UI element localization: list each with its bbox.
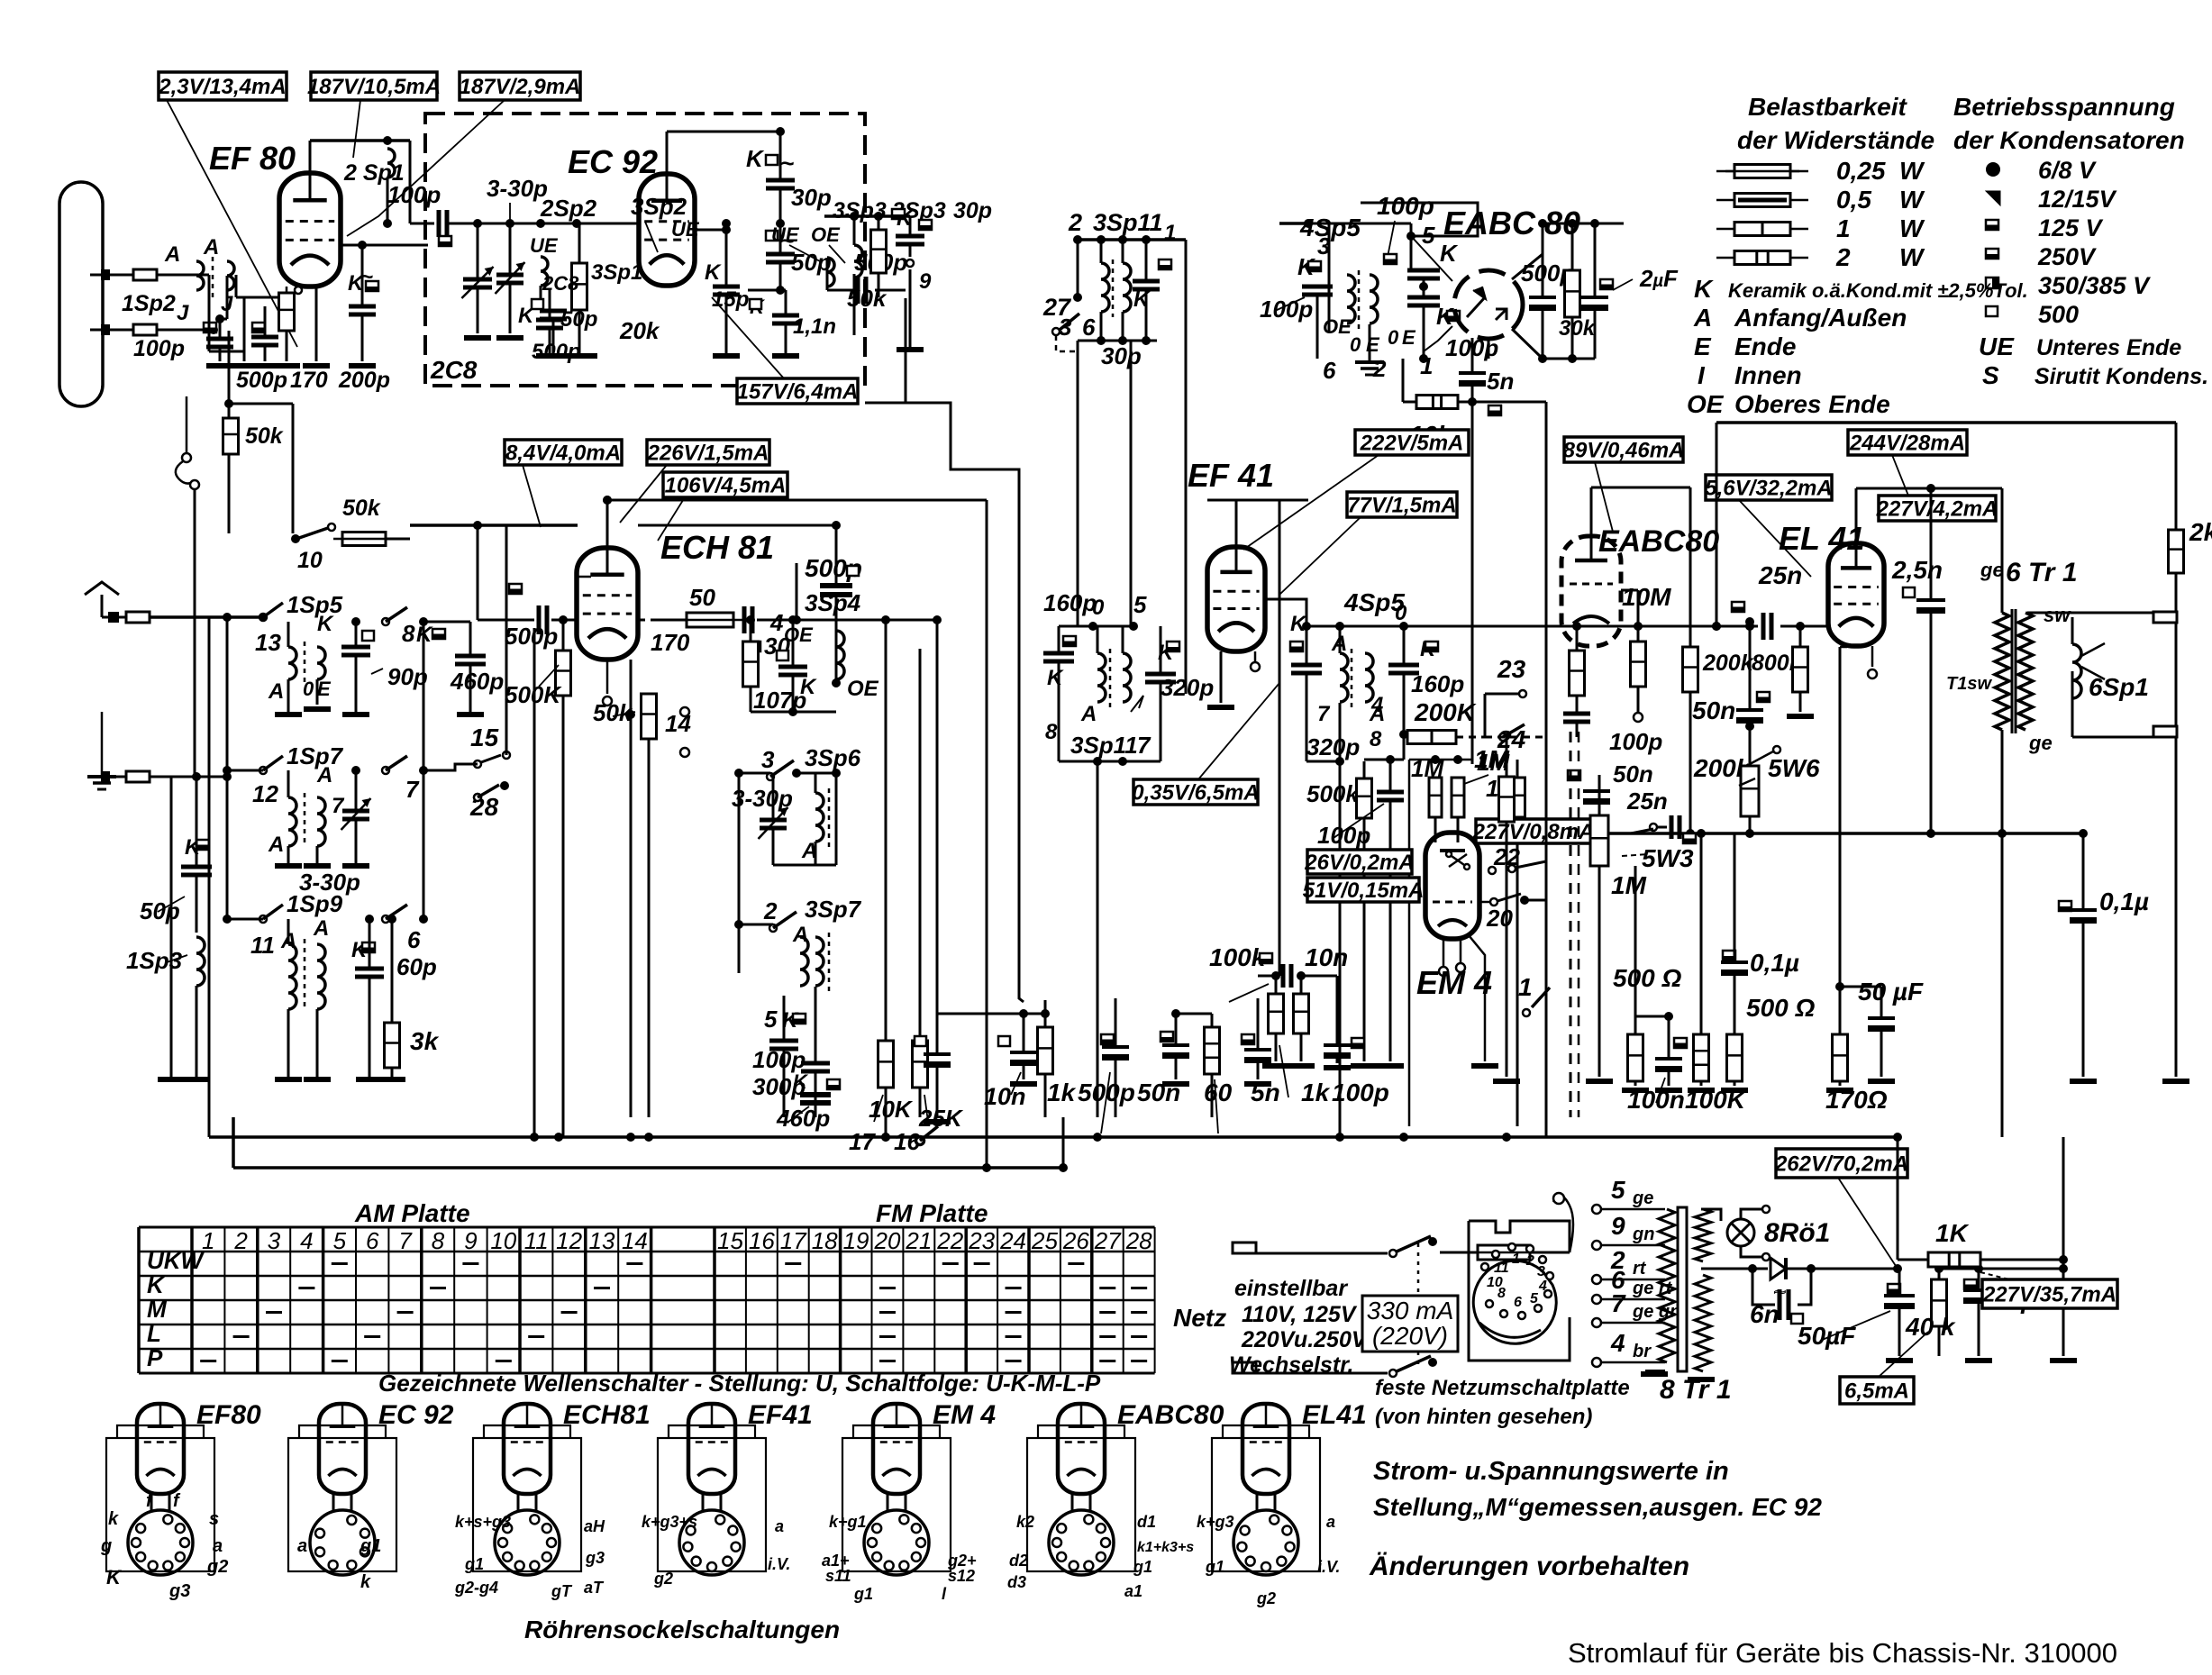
svg-text:rt: rt <box>1633 1259 1647 1279</box>
svg-text:Betriebsspannung: Betriebsspannung <box>1953 93 2175 121</box>
wire eabc2 anode up <box>1590 487 1593 536</box>
svg-text:200p: 200p <box>338 368 390 393</box>
measurement label 222V/5mA <box>1355 430 1469 456</box>
measurement label 187V/2,9mA <box>460 72 581 100</box>
svg-text:Stellung„M“gemessen,ausgen. EC: Stellung„M“gemessen,ausgen. EC 92 <box>1373 1493 1822 1521</box>
svg-text:Anfang/Außen: Anfang/Außen <box>1734 304 1907 332</box>
wire 830-866 links <box>725 223 727 230</box>
socket diagram ECH81 <box>473 1404 581 1575</box>
wire 50k up <box>230 319 232 418</box>
svg-text:30p: 30p <box>953 198 992 223</box>
svg-text:3: 3 <box>268 1227 281 1254</box>
coil 3Sp11 right <box>1123 263 1131 312</box>
capacitor 500p cathode <box>252 323 265 332</box>
svg-text:187V/2,9mA: 187V/2,9mA <box>460 75 581 99</box>
wire ech grid <box>509 619 534 622</box>
grounds right mid <box>1493 1079 1520 1084</box>
wire 25n to EL41 grid <box>1780 625 1830 628</box>
resistor 50k agc <box>223 418 239 454</box>
svg-text:K: K <box>1694 275 1714 303</box>
svg-text:15: 15 <box>717 1227 743 1254</box>
resistor 1k bottom2 <box>1269 994 1284 1033</box>
svg-text:4: 4 <box>1538 1279 1547 1294</box>
resistor 3Sp1 20k <box>572 263 587 310</box>
wire ef41 anode bracket <box>1207 499 1308 502</box>
svg-text:170: 170 <box>290 368 328 393</box>
svg-text:5W3: 5W3 <box>1642 844 1694 872</box>
wire main y685 <box>150 615 227 619</box>
svg-text:0,5: 0,5 <box>1836 186 1871 214</box>
wire 252 down <box>226 617 229 777</box>
wire el41 anode <box>1855 488 1858 543</box>
wire 700 down <box>630 712 633 752</box>
svg-text:5,6V/32,2mA: 5,6V/32,2mA <box>1705 477 1832 501</box>
wire dashes eabc col <box>1570 732 1572 1117</box>
wire 3sp11 bottom <box>1078 340 1157 342</box>
coil 1Sp2 secondary <box>227 261 234 290</box>
svg-text:ECH81: ECH81 <box>563 1400 651 1430</box>
svg-text:a: a <box>213 1536 223 1556</box>
svg-text:A: A <box>268 679 284 704</box>
svg-text:6,5mA: 6,5mA <box>1844 1379 1909 1404</box>
rectifier diode <box>1701 1268 1768 1270</box>
svg-text:3Sp7: 3Sp7 <box>805 896 862 923</box>
svg-text:8Rö1: 8Rö1 <box>1764 1218 1830 1248</box>
legend cap 12/15V <box>1986 191 2000 205</box>
svg-text:2: 2 <box>233 1227 248 1254</box>
svg-text:0: 0 <box>1350 333 1361 356</box>
capacitor 6n <box>1780 1289 1789 1320</box>
leader 77 <box>1279 517 1361 595</box>
wire eabc bottom down <box>1488 339 1490 359</box>
svg-text:9: 9 <box>919 269 932 294</box>
svg-text:350/385 V: 350/385 V <box>2038 272 2151 299</box>
svg-text:aT: aT <box>584 1579 605 1597</box>
EM4 frame <box>1409 759 1472 761</box>
svg-text:k2: k2 <box>1016 1513 1034 1531</box>
resistor 60 bottom <box>1205 1027 1220 1074</box>
svg-text:Belastbarkeit: Belastbarkeit <box>1748 93 1908 121</box>
coil 4Sp5 primary <box>1347 275 1355 323</box>
svg-text:14: 14 <box>665 710 691 737</box>
svg-text:(220V): (220V) <box>1372 1322 1448 1350</box>
antenna symbol small <box>85 582 119 595</box>
svg-text:1Sp9: 1Sp9 <box>287 890 343 917</box>
grounds left bottom <box>158 1077 185 1082</box>
svg-text:2k: 2k <box>2189 518 2212 546</box>
svg-text:W: W <box>1899 243 1925 271</box>
svg-text:k+g3: k+g3 <box>1197 1513 1234 1531</box>
svg-text:K: K <box>793 1070 809 1093</box>
wire 1558 815 down <box>1403 734 1406 760</box>
svg-text:15: 15 <box>470 724 499 751</box>
capacitor 50n bottom <box>1161 1032 1173 1042</box>
bus vertical drops <box>554 1133 563 1142</box>
EF41 anode up <box>1235 500 1238 547</box>
leader 035 <box>1198 683 1279 779</box>
svg-text:Oberes Ende: Oberes Ende <box>1734 390 1890 418</box>
wire 254 up <box>228 331 231 404</box>
measurement label 262V/70,2mA <box>1774 1149 1908 1178</box>
socket diagram EC 92 <box>288 1404 396 1575</box>
wire EC92 plate right <box>695 229 726 232</box>
capacitor 460p bottom <box>800 1095 831 1103</box>
coil 4Sp5 secondary <box>1370 275 1378 323</box>
svg-text:g2: g2 <box>653 1570 673 1588</box>
EC92 anode wire up <box>666 132 669 174</box>
wire top 1sp5 <box>288 621 356 623</box>
svg-text:s12: s12 <box>948 1567 975 1585</box>
svg-text:6: 6 <box>1514 1295 1522 1310</box>
tube EF41 <box>1207 547 1265 651</box>
wire 2106 down <box>1897 1137 1899 1260</box>
svg-text:6/8 V: 6/8 V <box>2038 157 2097 184</box>
capacitor 0,1u right <box>2059 901 2071 911</box>
svg-text:d2: d2 <box>1009 1552 1028 1570</box>
wire 30k bottom <box>1512 329 1543 359</box>
socket diagram EABC80 <box>1027 1404 1135 1575</box>
svg-text:A: A <box>203 235 219 259</box>
resistor 500ohm 2 <box>1727 1034 1743 1081</box>
wire 470 column <box>423 622 425 919</box>
svg-text:OE: OE <box>784 624 814 646</box>
measurement label 106V/4,5mA <box>663 472 787 498</box>
svg-text:S: S <box>1982 361 1999 389</box>
svg-text:Strom- u.Spannungswerte in: Strom- u.Spannungswerte in <box>1373 1457 1729 1486</box>
svg-text:2: 2 <box>1525 1253 1534 1269</box>
svg-text:d1: d1 <box>1137 1513 1156 1531</box>
transformer 8Tr1 primary winding <box>1659 1209 1675 1362</box>
wire y690 mid <box>757 619 886 622</box>
socket diagram EM 4 <box>842 1404 951 1575</box>
wire 3sp7 caps <box>783 996 786 1041</box>
svg-text:3Sp1: 3Sp1 <box>591 260 642 285</box>
wire 10k left vertical <box>1402 359 1405 402</box>
wire from upper terminal <box>157 274 209 277</box>
svg-text:3-30p: 3-30p <box>732 785 793 812</box>
disc pins <box>1481 1263 1488 1270</box>
legend resistor 1W <box>1716 228 1734 231</box>
svg-text:Röhrensockelschaltungen: Röhrensockelschaltungen <box>524 1616 840 1643</box>
wire staircase B+ mid <box>906 298 1024 1002</box>
label 8Ro1 leader <box>1748 1252 1757 1260</box>
svg-text:4: 4 <box>1610 1329 1625 1357</box>
svg-text:Keramik o.ä.Kond.mit ±2,5%Tol.: Keramik o.ä.Kond.mit ±2,5%Tol. <box>1728 279 2028 302</box>
wire ef41 out right <box>1265 599 1306 626</box>
wire 15 to column <box>423 764 478 770</box>
capacitor 500p EC92 grid <box>536 320 563 328</box>
capacitor 50uF psu2 <box>1964 1279 1977 1289</box>
svg-text:ge rt: ge rt <box>1632 1279 1673 1298</box>
svg-text:10: 10 <box>490 1227 516 1254</box>
wire 1K <box>1898 1259 1928 1261</box>
svg-text:27: 27 <box>1094 1227 1122 1254</box>
svg-text:26V/0,2mA: 26V/0,2mA <box>1304 851 1414 875</box>
svg-text:E: E <box>1366 333 1380 356</box>
svg-text:10: 10 <box>297 548 323 573</box>
wire rail y555 ech anode <box>607 499 987 502</box>
measurement label 0,35V/6,5mA <box>1132 779 1259 806</box>
wire 4sp5 bottom <box>1306 760 1340 763</box>
wire ant to terminal <box>101 595 104 617</box>
wire 10k <box>1458 401 1472 404</box>
leader 65 <box>1879 1332 1928 1377</box>
wire 200k5w6 bottom <box>1749 816 1752 833</box>
svg-text:100p: 100p <box>1332 1079 1389 1106</box>
capacitor 5n <box>1471 338 1474 371</box>
svg-text:A: A <box>792 923 808 947</box>
wire 3sp6 top <box>739 772 770 775</box>
ECH81 internals wire mess <box>577 576 591 578</box>
svg-text:23: 23 <box>1497 655 1526 683</box>
svg-text:1Sp2: 1Sp2 <box>122 291 176 316</box>
svg-text:50p: 50p <box>791 249 832 276</box>
wire 50p gnd <box>552 319 555 353</box>
svg-text:12: 12 <box>252 780 278 807</box>
mains switch upper <box>1389 1250 1397 1257</box>
svg-text:20: 20 <box>1486 905 1513 932</box>
EF80 cathode leads <box>295 287 302 294</box>
svg-text:~: ~ <box>1773 1280 1786 1305</box>
svg-text:gn: gn <box>1632 1224 1654 1244</box>
svg-text:106V/4,5mA: 106V/4,5mA <box>665 474 787 498</box>
svg-text:227V/0,8mA: 227V/0,8mA <box>1472 820 1595 844</box>
trimmer 3-30p left <box>341 798 371 830</box>
svg-text:ge: ge <box>1632 1188 1653 1208</box>
measurement label 26V/0,2mA <box>1304 850 1414 875</box>
wire between caps <box>1423 278 1425 297</box>
resistor 10k <box>1416 396 1458 409</box>
legend resistor 0,25W <box>1716 170 1734 173</box>
wire 6n loop <box>1752 1269 1775 1305</box>
coil 1Sp5 sec <box>317 647 325 679</box>
wire top bus 2sp3 <box>824 214 910 218</box>
svg-text:227V/35,7mA: 227V/35,7mA <box>1982 1283 2116 1307</box>
svg-text:6: 6 <box>366 1227 379 1254</box>
svg-text:g2-g4: g2-g4 <box>454 1579 498 1597</box>
svg-text:10: 10 <box>1487 1275 1503 1290</box>
svg-text:500: 500 <box>2038 301 2079 328</box>
svg-text:Wechselstr.: Wechselstr. <box>1229 1352 1354 1378</box>
svg-text:125 V: 125 V <box>2038 214 2104 241</box>
svg-text:a1: a1 <box>1124 1582 1142 1600</box>
svg-text:g1: g1 <box>1205 1558 1224 1576</box>
svg-text:2: 2 <box>763 897 778 924</box>
svg-text:8,4V/4,0mA: 8,4V/4,0mA <box>505 442 621 466</box>
svg-text:M: M <box>147 1296 168 1323</box>
svg-text:g2: g2 <box>1256 1589 1276 1607</box>
svg-text:19: 19 <box>843 1227 869 1254</box>
svg-text:100p: 100p <box>752 1046 806 1073</box>
terminal antenna <box>126 612 150 623</box>
svg-text:3: 3 <box>1059 314 1072 341</box>
legend resistor 2W <box>1716 257 1734 259</box>
svg-text:226V/1,5mA: 226V/1,5mA <box>647 442 769 466</box>
svg-text:UKW: UKW <box>147 1247 205 1274</box>
el41 cathode leads <box>1840 646 1847 649</box>
coil 1Sp7 A <box>288 797 296 846</box>
disc arm <box>1479 1323 1541 1337</box>
svg-text:222V/5mA: 222V/5mA <box>1360 432 1464 456</box>
svg-text:EM 4: EM 4 <box>933 1400 996 1430</box>
svg-text:der Kondensatoren: der Kondensatoren <box>1953 126 2185 154</box>
capacitor 100p 3sp7 <box>769 1041 798 1049</box>
coil 3Sp7 <box>815 937 824 986</box>
svg-text:g3: g3 <box>168 1581 190 1601</box>
svg-text:10M: 10M <box>1622 583 1671 611</box>
transformer 8Tr1 core <box>1678 1207 1687 1371</box>
svg-text:ge: ge <box>2028 732 2053 754</box>
measurement label 227V/35,7mA <box>1982 1279 2117 1308</box>
svg-text:187V/10,5mA: 187V/10,5mA <box>307 75 441 99</box>
svg-text:25n: 25n <box>1758 561 1802 589</box>
wire 983 up <box>919 649 922 1041</box>
svg-text:1k: 1k <box>1301 1079 1331 1106</box>
resistor 1k bottom <box>1038 1027 1053 1074</box>
svg-text:10n: 10n <box>1305 943 1348 971</box>
tube EM4 <box>1425 833 1479 939</box>
svg-text:k1+k3+s: k1+k3+s <box>1137 1540 1194 1555</box>
svg-text:0,35V/6,5mA: 0,35V/6,5mA <box>1132 781 1259 806</box>
svg-text:EF80: EF80 <box>196 1400 261 1430</box>
wire top 1sp7 <box>288 769 356 771</box>
svg-text:100p: 100p <box>1377 192 1434 220</box>
coil 1Sp9 A <box>288 944 296 1009</box>
legend cap 350/385V <box>1986 278 1998 288</box>
measurement label 51V/0,15mA <box>1303 878 1425 903</box>
coil 3Sp4 <box>836 631 844 679</box>
svg-text:5: 5 <box>1133 591 1147 618</box>
svg-text:1: 1 <box>1164 221 1176 245</box>
svg-text:23: 23 <box>968 1227 995 1254</box>
svg-text:I: I <box>1698 361 1706 389</box>
resistor 170 ech <box>678 613 742 627</box>
wire screen 200p <box>341 244 362 247</box>
svg-text:i.V.: i.V. <box>768 1555 790 1573</box>
wire 4sp5 frame <box>1306 625 1404 628</box>
leader 106 <box>658 497 685 541</box>
wire to 3Sp4 zone <box>757 619 797 622</box>
svg-text:g1: g1 <box>853 1585 873 1603</box>
svg-text:8: 8 <box>1045 720 1058 744</box>
terminal ground side <box>90 776 126 778</box>
svg-text:1K: 1K <box>1935 1219 1970 1247</box>
wire v1255 drop <box>1130 341 1133 626</box>
svg-text:30p: 30p <box>1101 342 1142 369</box>
wire 3Sp3 <box>826 258 829 290</box>
svg-text:100k: 100k <box>1209 943 1267 971</box>
wire 23 <box>1485 693 1519 696</box>
transformer 8Tr1 secondary top <box>1695 1209 1711 1261</box>
svg-text:9: 9 <box>464 1227 477 1254</box>
resistor 2k <box>2169 530 2184 573</box>
main bus y925 <box>1607 832 2083 835</box>
wire spk <box>2071 617 2074 644</box>
wire 3sp11 bot <box>1059 760 1161 763</box>
coil 3Sp11 left <box>1101 263 1109 312</box>
svg-text:2: 2 <box>1835 243 1851 271</box>
mains terminal lower <box>1233 1362 1256 1373</box>
svg-text:K: K <box>800 675 817 699</box>
svg-text:90p: 90p <box>387 663 428 690</box>
wire bottom joins <box>1317 358 1424 360</box>
svg-text:g1: g1 <box>464 1555 484 1573</box>
leader lines from circle <box>1411 236 1452 281</box>
legend resistor 0,5W <box>1716 199 1734 202</box>
trimmer 2C8 left <box>461 267 493 298</box>
svg-text:2,5n: 2,5n <box>1891 556 1943 584</box>
measurement label 89V/0,46mA <box>1563 437 1685 463</box>
wire v1095 drop <box>986 500 988 1168</box>
svg-text:K: K <box>1047 666 1064 690</box>
dial lamp <box>1727 1219 1754 1246</box>
svg-text:0: 0 <box>1395 601 1407 625</box>
svg-text:320p: 320p <box>1161 674 1214 701</box>
svg-text:A: A <box>801 839 817 863</box>
resistor 30 if <box>743 642 759 687</box>
svg-text:500 Ω: 500 Ω <box>1613 964 1681 992</box>
leader 222 <box>1243 455 1379 550</box>
ground EC92 internals <box>464 335 491 341</box>
table grid <box>139 1227 1155 1373</box>
svg-text:Unteres Ende: Unteres Ende <box>2036 335 2181 360</box>
svg-text:100p: 100p <box>133 336 185 361</box>
capacitor 100p em4 <box>1377 792 1404 800</box>
transformer 8Tr1 secondary main <box>1695 1275 1711 1371</box>
resistor 10K bottom <box>878 1041 894 1088</box>
svg-text:L: L <box>147 1320 161 1347</box>
box 330mA 220V <box>1362 1296 1458 1352</box>
coil 3Sp11b sec <box>1123 653 1131 702</box>
wire 218 up <box>196 777 198 822</box>
svg-text:K: K <box>106 1566 123 1589</box>
svg-text:1: 1 <box>202 1227 214 1254</box>
svg-text:Stromlauf für Geräte bis C: Stromlauf für Geräte bis Chassis-Nr. 310… <box>1568 1637 2117 1669</box>
svg-text:7: 7 <box>398 1227 413 1254</box>
svg-text:170: 170 <box>651 629 690 656</box>
wire eabc out <box>1621 589 1638 592</box>
svg-text:2,3V/13,4mA: 2,3V/13,4mA <box>158 75 286 99</box>
ground symbol left <box>101 721 104 777</box>
svg-text:K: K <box>705 260 722 285</box>
capacitor 90p <box>341 647 370 655</box>
capacitor 500p bottom <box>1101 1034 1114 1044</box>
svg-text:EM 4: EM 4 <box>1416 964 1492 1001</box>
svg-text:77V/1,5mA: 77V/1,5mA <box>1347 494 1456 518</box>
capacitor 2uF <box>1581 297 1608 311</box>
pot 5W3 wiper <box>1650 824 1657 831</box>
measurement label 6,5mA <box>1840 1377 1914 1404</box>
svg-text:3Sp2: 3Sp2 <box>631 193 687 220</box>
switch link dashed <box>1417 1243 1420 1366</box>
measurement label 5,6V/32,2mA <box>1705 475 1832 501</box>
svg-text:107p: 107p <box>753 687 806 714</box>
coil 1Sp5 A <box>288 647 296 679</box>
svg-text:EL 41: EL 41 <box>1779 520 1864 557</box>
wire top 3sp11 <box>1074 238 1186 241</box>
svg-text:17: 17 <box>849 1128 876 1155</box>
capacitor 100n <box>1655 1059 1682 1072</box>
svg-text:0: 0 <box>1092 596 1105 620</box>
svg-text:K: K <box>317 612 334 636</box>
wire bus horizontal 1262 <box>209 1135 1898 1139</box>
ground 1sp7 <box>275 863 302 869</box>
antenna dipole symbol <box>59 182 103 406</box>
svg-text:3Sp6: 3Sp6 <box>805 744 861 771</box>
svg-text:EABC80: EABC80 <box>1117 1400 1224 1430</box>
leader 89 <box>1595 462 1613 532</box>
leader line to EF80 cathode <box>167 100 297 347</box>
